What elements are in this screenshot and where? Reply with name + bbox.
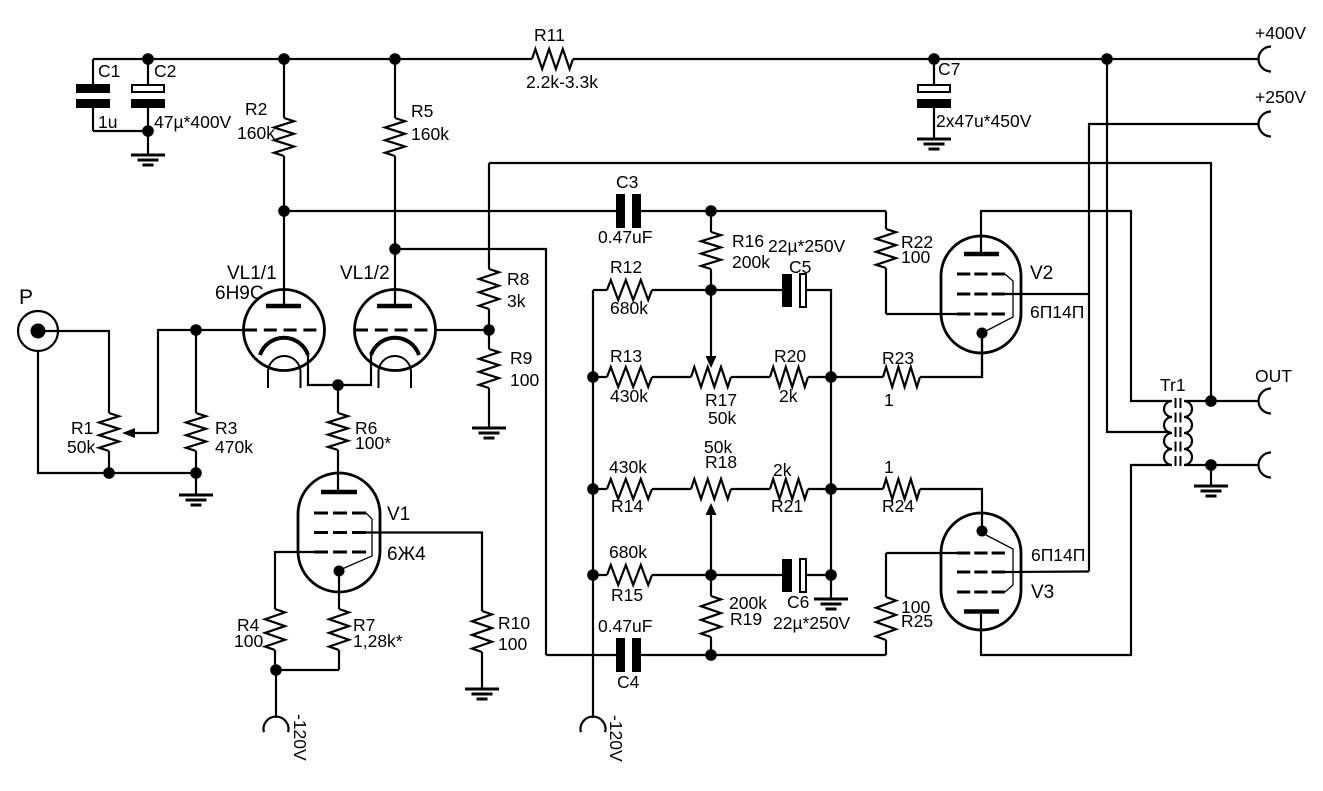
svg-text:430k: 430k [609,457,647,477]
terminal +250V [1255,87,1306,137]
svg-text:6П14П: 6П14П [1031,545,1085,565]
svg-text:VL1/1: VL1/1 [227,263,277,284]
resistor R25 [876,553,957,655]
resistor R4 [234,609,285,670]
svg-text:1: 1 [884,390,894,410]
svg-text:6П14П: 6П14П [1030,302,1084,322]
svg-text:C4: C4 [617,672,640,692]
ground under R3 [179,495,213,505]
resistor R13 [593,346,691,406]
resistor R5 [385,59,449,304]
svg-text:100: 100 [901,247,930,267]
terminal -120V left [264,670,311,761]
node C1/C2 bottom junction [142,125,154,137]
svg-text:0.47uF: 0.47uF [598,616,652,636]
ground under R10 [465,689,499,699]
wire V3 screen to +250V rail [1005,570,1089,573]
svg-text:50k: 50k [67,437,95,457]
terminal -120V center [581,715,627,762]
svg-text:V3: V3 [1031,582,1054,603]
wire NFB from R8 top to output [489,163,1211,401]
svg-text:680k: 680k [609,542,647,562]
svg-text:430k: 430k [610,386,648,406]
node cathode junction VL1 [332,379,344,391]
triode VL1/2 [338,263,436,388]
wire grid input to VL1/1 [196,329,244,331]
node C6 right junction [825,569,837,581]
svg-text:1: 1 [884,457,894,477]
node R2 top [278,53,290,65]
pentode V1 6Zh4 [298,473,426,609]
node R1 bottom [103,467,115,479]
capacitor C3 [598,172,652,247]
node cathode rail row2 [825,483,837,495]
node cathode rail row1 [825,371,837,383]
ground under R9 [472,428,506,438]
resistor R11 [526,25,598,92]
resistor R22 [876,211,957,314]
svg-text:2k: 2k [773,460,792,480]
wire VL1/2 plate to C4 drop [395,249,546,655]
transformer Tr1 primary winding [1160,375,1186,465]
svg-text:R1: R1 [71,418,93,438]
node bias rail row2 [587,483,599,495]
svg-text:R13: R13 [610,346,642,366]
wire bias rail [592,290,594,718]
node grid junction R3 top [190,324,202,336]
node R16 bottom junction [705,284,717,296]
resistor R9 [479,348,539,428]
resistor R8 [479,163,529,349]
resistor R19 [701,575,767,655]
wire top +400V rail [93,58,1258,60]
node bias rail row1 [587,371,599,383]
resistor R2 [237,59,294,304]
svg-text:R10: R10 [498,613,530,633]
wire P to R1 top [38,331,109,413]
svg-text:V1: V1 [387,504,410,525]
resistor R3 [186,330,253,495]
capacitor C1 [76,59,148,132]
resistor R7 [275,609,403,670]
potentiometer R1 [67,413,119,473]
capacitor C4 [598,616,652,692]
svg-text:R2: R2 [245,99,267,119]
resistor R24 [831,457,982,531]
wire V2 plate to transformer top [981,211,1172,401]
svg-text:VL1/2: VL1/2 [340,263,390,284]
node R8/R9 grid junction [483,324,495,336]
capacitor C6 [773,559,851,633]
node C7 rail junction [928,53,940,65]
node R16 top junction [705,205,717,217]
svg-text:C3: C3 [616,172,638,192]
svg-text:2k: 2k [779,386,798,406]
node R5 top [389,53,401,65]
svg-text:2.2k-3.3k: 2.2k-3.3k [526,72,598,92]
wire junction to C6 [711,574,782,576]
svg-text:R18: R18 [705,452,737,472]
svg-text:22µ*250V: 22µ*250V [773,613,851,633]
svg-text:C6: C6 [787,592,809,612]
wire C4 to R25 [641,654,886,656]
resistor R6 [328,385,391,492]
potentiometer R17 [691,367,770,428]
svg-text:100: 100 [498,634,527,654]
svg-text:100: 100 [234,631,263,651]
wire +400V rail to transformer center tap [1107,59,1170,432]
node R3 bottom [190,467,202,479]
svg-text:Tr1: Tr1 [1160,375,1186,395]
svg-text:R24: R24 [882,496,914,516]
wire C3 to R22 [641,210,886,212]
svg-text:R5: R5 [411,101,433,121]
svg-text:R21: R21 [771,496,803,516]
svg-text:C7: C7 [938,59,960,79]
wire C4 line [546,654,616,656]
resistor R12 [593,257,711,318]
resistor R23 [831,338,982,410]
wire V1 grid1 to R4 [275,552,314,609]
resistor R16 [701,211,770,290]
svg-text:2x47u*450V: 2x47u*450V [936,111,1032,131]
terminal OUT bottom [1259,453,1272,478]
pentode V3 6P14P [941,513,1085,630]
svg-text:6H9C: 6H9C [215,283,264,304]
node R19 bottom junction [705,649,717,661]
svg-text:+400V: +400V [1255,23,1306,43]
wiper of R1 [122,330,196,438]
resistor R20 [770,346,831,406]
capacitor C2 [131,59,232,154]
svg-text:C5: C5 [789,257,811,277]
resistor R14 [593,457,691,516]
resistor R10 [472,611,530,689]
wire secondary top to OUT [1184,400,1259,402]
svg-text:3k: 3k [507,291,526,311]
svg-text:47µ*400V: 47µ*400V [154,112,232,132]
svg-text:1,28k*: 1,28k* [353,631,403,651]
terminal OUT top [1255,366,1292,414]
svg-text:R11: R11 [534,25,565,45]
pentode V2 6P14P [941,236,1084,377]
svg-text:R8: R8 [507,269,529,289]
transformer Tr1 core [1176,398,1181,468]
wire C5 to cathode rail [807,290,831,599]
svg-text:R16: R16 [732,231,764,251]
node R4/R7 junction [270,664,282,676]
svg-text:P: P [19,286,33,309]
node secondary bottom junction [1205,459,1217,471]
svg-text:200k: 200k [732,252,770,272]
wire VL1/1 plate to C3 [284,210,616,212]
resistor R15 [593,542,711,605]
wire +250V to screens rail [1089,124,1258,572]
wire VL1/2 grid to R8/R9 junction [435,329,489,331]
connector P input [18,286,58,351]
wire V2 screen to +250V rail [1005,293,1089,295]
wire P ground loop [38,351,196,473]
svg-text:OUT: OUT [1255,366,1292,386]
ground under secondary [1194,465,1228,496]
svg-text:22µ*250V: 22µ*250V [768,236,846,256]
svg-text:470k: 470k [215,437,253,457]
svg-text:R19: R19 [730,609,762,629]
svg-text:-120V: -120V [606,715,626,762]
svg-text:C2: C2 [154,61,176,81]
svg-text:R15: R15 [611,585,643,605]
svg-text:R9: R9 [510,348,532,368]
wiper of R17 [706,290,717,368]
node +400V drop junction [1101,53,1113,65]
capacitor C7 [917,59,1032,138]
ground under C2 [131,155,165,165]
capacitor C5 [768,236,846,307]
svg-text:680k: 680k [610,298,648,318]
ground under C7 [917,139,951,149]
node bias rail row3 [587,569,599,581]
node C1/C2 top junction [142,53,154,65]
node secondary top junction [1205,395,1217,407]
transformer Tr1 secondary winding [1184,401,1192,465]
resistor R21 [770,460,831,516]
svg-text:R3: R3 [215,418,237,438]
svg-text:100: 100 [510,370,539,390]
svg-text:R23: R23 [882,348,914,368]
svg-text:100*: 100* [355,433,391,453]
triode VL1/1 6H9C [215,263,338,388]
node VL1/2 plate junction [389,243,401,255]
wire V1 screen to R10 [366,533,482,612]
wire secondary bottom to OUT [1184,464,1259,466]
svg-text:6Ж4: 6Ж4 [387,544,426,565]
svg-text:R25: R25 [901,611,933,631]
node R19 top junction [705,569,717,581]
svg-text:160k: 160k [411,124,449,144]
svg-text:160k: 160k [237,123,275,143]
svg-text:R17: R17 [705,390,737,410]
wiper of R18 [706,503,717,575]
svg-text:R12: R12 [610,257,642,277]
svg-text:0.47uF: 0.47uF [598,227,652,247]
svg-text:+250V: +250V [1255,87,1306,107]
svg-text:-120V: -120V [290,714,310,761]
svg-text:V2: V2 [1030,263,1053,284]
svg-text:C1: C1 [98,61,120,81]
svg-text:R20: R20 [774,346,806,366]
potentiometer R18 [691,437,770,499]
node VL1/1 plate junction [278,205,290,217]
terminal +400V [1255,23,1306,72]
svg-text:50k: 50k [708,408,736,428]
svg-text:R14: R14 [611,496,643,516]
wire junction to C5 [711,289,782,291]
wire V3 plate to transformer bottom [981,465,1172,655]
ground under C6 [814,599,848,609]
svg-text:1u: 1u [98,112,117,132]
